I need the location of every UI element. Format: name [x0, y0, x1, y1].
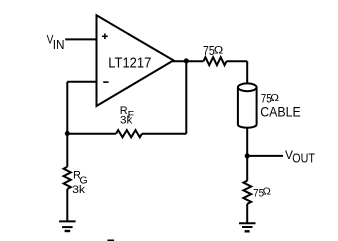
svg-text:CABLE: CABLE [260, 103, 301, 119]
svg-text:OUT: OUT [292, 151, 315, 166]
svg-text:LT1217: LT1217 [108, 54, 151, 71]
svg-text:Ω: Ω [263, 187, 272, 198]
svg-text:3k: 3k [120, 114, 133, 126]
svg-text:3k: 3k [72, 184, 86, 196]
svg-text:Ω: Ω [214, 44, 224, 56]
svg-text:Ω: Ω [270, 92, 279, 104]
svg-text:IN: IN [53, 37, 65, 52]
